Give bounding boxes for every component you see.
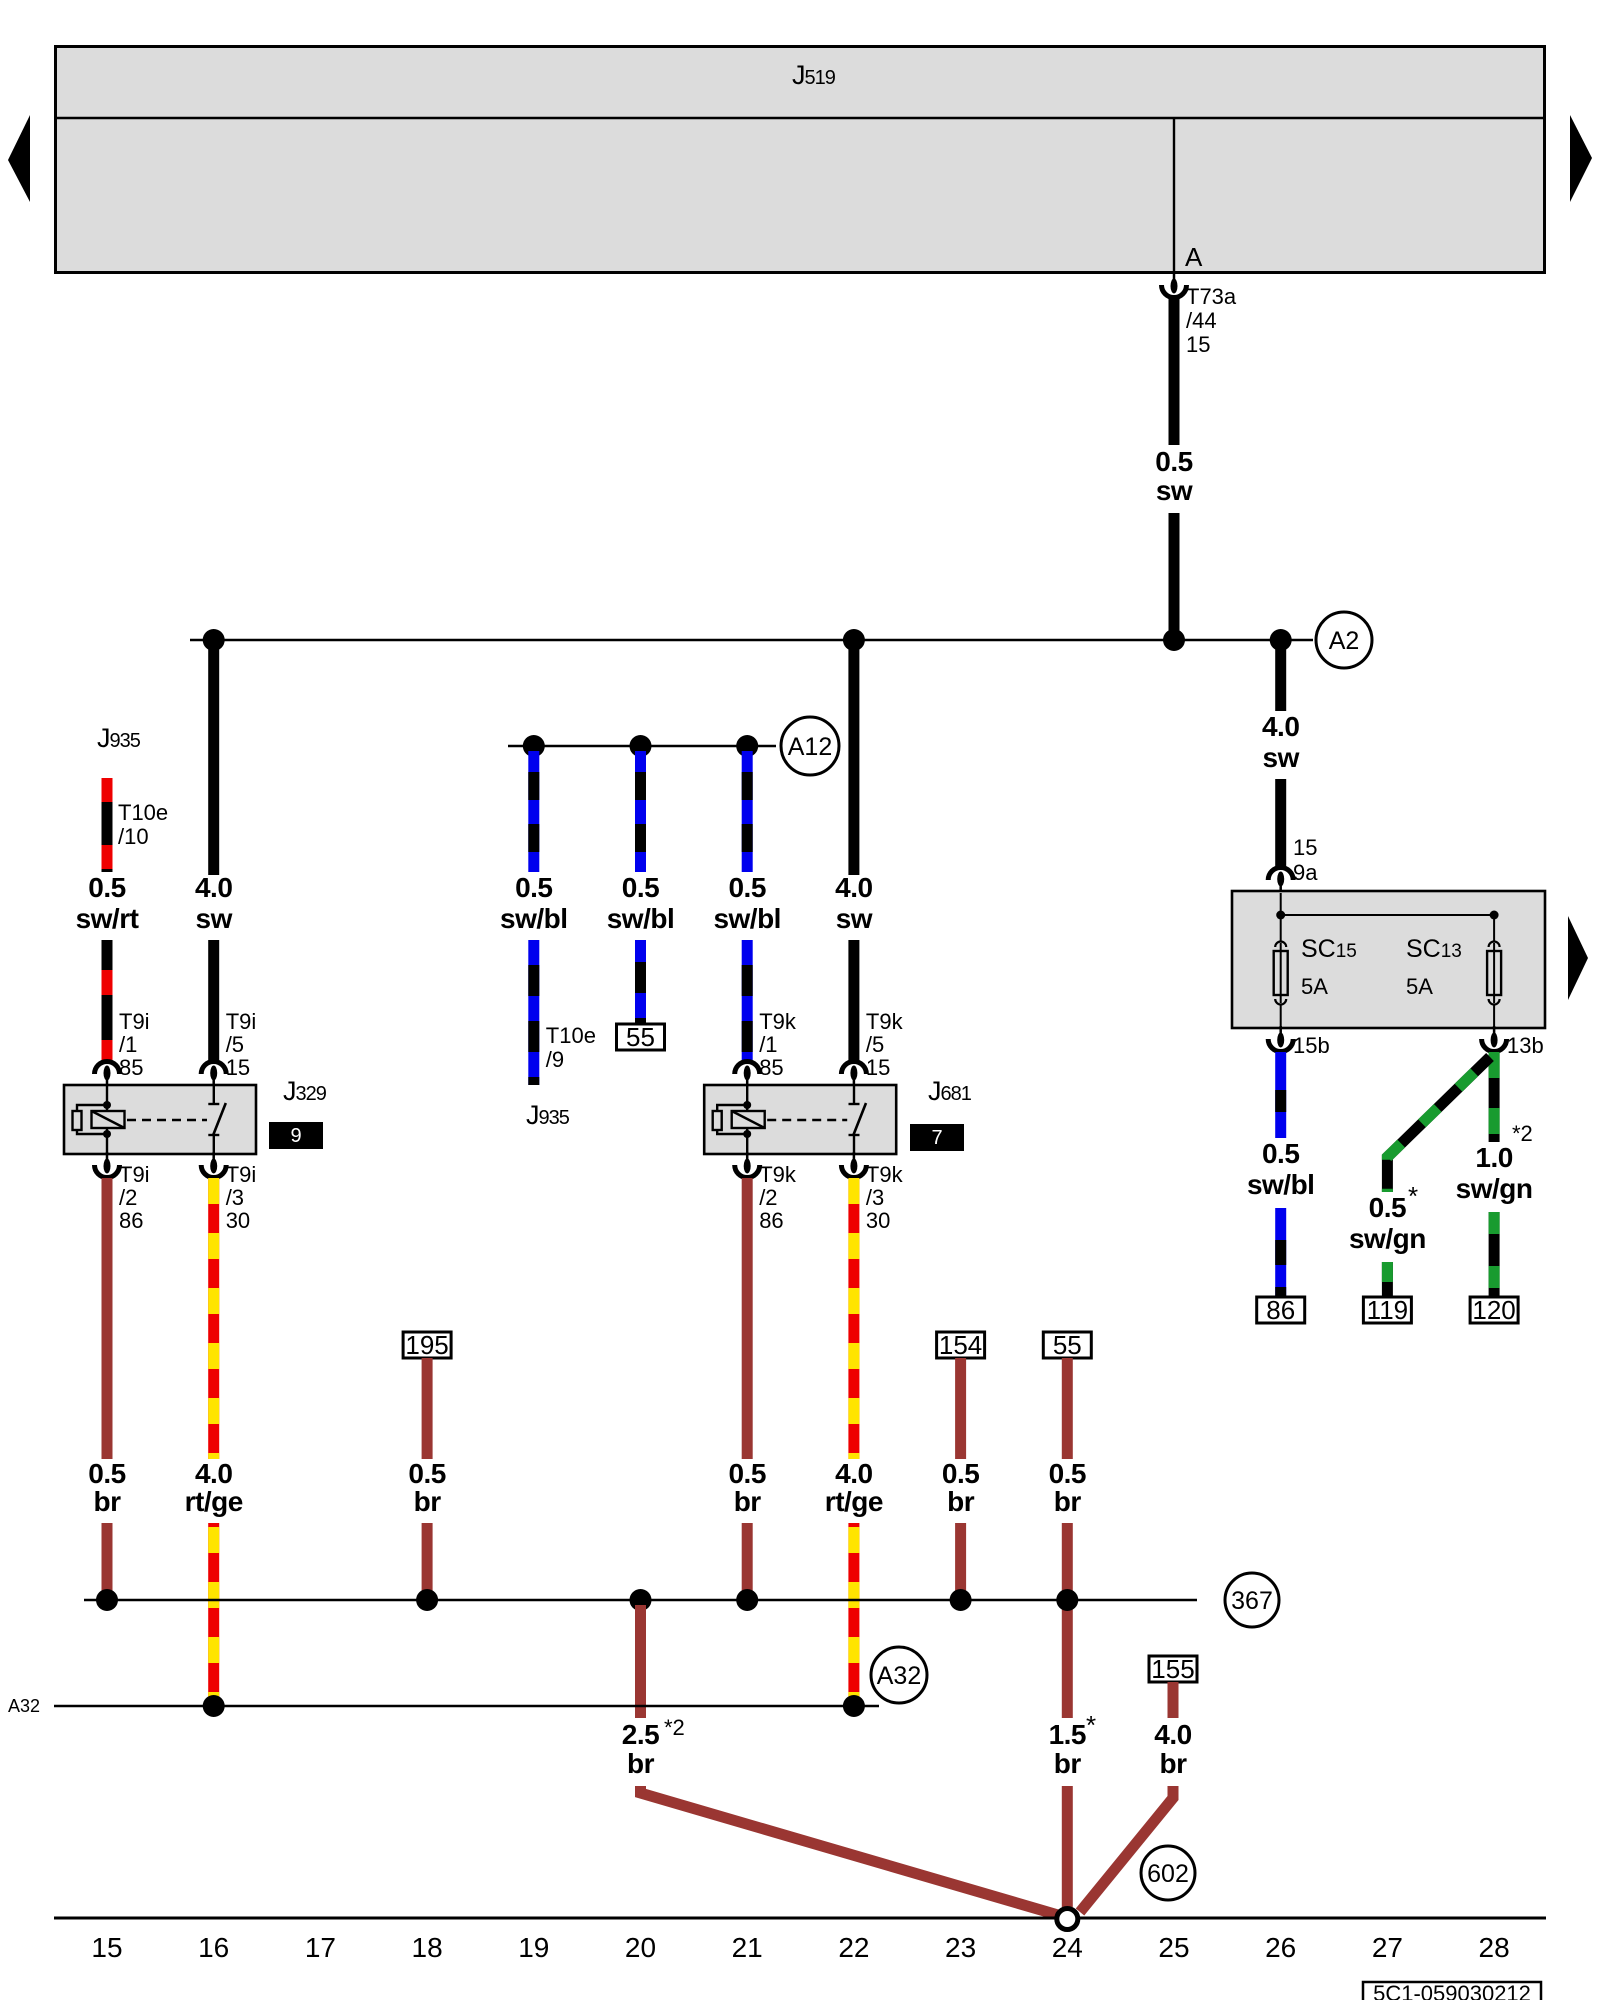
wire label 0.5 br col24: [1049, 1458, 1086, 1517]
terminal box 155: [1149, 1654, 1197, 1684]
wire label 4.0 br col25: [1154, 1719, 1191, 1779]
connector label T73a /44 15: [1186, 284, 1237, 357]
ground junction ring: [1057, 1909, 1078, 1930]
connector T9k/2 86: [735, 1152, 760, 1178]
connector T9i/3 30: [201, 1152, 226, 1178]
svg-text:0.5: 0.5: [1155, 446, 1192, 477]
svg-text:28: 28: [1479, 1932, 1510, 1963]
connector T9k/3 30: [841, 1152, 866, 1178]
wire label 0.5 sw/rt: [76, 872, 139, 934]
svg-text:br: br: [1054, 1748, 1082, 1779]
svg-text:/5: /5: [226, 1032, 244, 1057]
junction dot col21/367: [736, 1589, 758, 1611]
wire 0.5 br from T9i/2: [102, 1178, 113, 1600]
svg-text:0.5: 0.5: [515, 872, 552, 903]
svg-text:sw: sw: [1263, 742, 1300, 773]
svg-text:7: 7: [931, 1127, 942, 1149]
wire label 0.5 sw: [1155, 446, 1193, 506]
connector label T10e /10: [118, 800, 168, 849]
svg-text:*: *: [1086, 1710, 1096, 1740]
terminal box 195: [403, 1330, 451, 1360]
terminal box 120: [1470, 1295, 1518, 1325]
svg-text:/1: /1: [119, 1032, 137, 1057]
wire 0.5 br col18: [422, 1358, 433, 1600]
wire 4.0 rt/ge from T9i/3: [208, 1178, 219, 1701]
svg-text:sw/bl: sw/bl: [713, 903, 781, 934]
svg-text:20: 20: [625, 1932, 656, 1963]
wire label 0.5 br col23: [942, 1458, 979, 1517]
svg-text:21: 21: [732, 1932, 763, 1963]
svg-text:/44: /44: [1186, 308, 1217, 333]
svg-text:24: 24: [1052, 1932, 1083, 1963]
wire label 4.0 sw col22: [835, 872, 873, 934]
connector label 15 9a: [1293, 835, 1318, 885]
ground circle 367: [1225, 1573, 1279, 1627]
svg-text:0.5: 0.5: [942, 1458, 979, 1489]
connector label T9i /5 15: [226, 1009, 257, 1080]
svg-text:155: 155: [1151, 1654, 1194, 1684]
wire 2.5 br diagonal to ground point: [641, 1786, 1059, 1915]
connector 15/9a to fuse box: [1268, 868, 1293, 894]
svg-text:19: 19: [518, 1932, 549, 1963]
svg-text:27: 27: [1372, 1932, 1403, 1963]
svg-text:16: 16: [198, 1932, 229, 1963]
svg-text:4.0: 4.0: [1154, 1719, 1191, 1750]
right continuation arrow (top): [1570, 115, 1592, 202]
svg-text:0.5: 0.5: [622, 872, 659, 903]
svg-text:*: *: [1408, 1181, 1418, 1211]
ground node line 367: [84, 1599, 1197, 1602]
junction dot col20: [630, 735, 652, 757]
svg-text:A12: A12: [788, 733, 832, 761]
svg-text:15: 15: [1186, 332, 1210, 357]
svg-text:T9k: T9k: [759, 1009, 797, 1034]
junction dot col22: [843, 629, 865, 651]
svg-text:0.5: 0.5: [88, 872, 125, 903]
svg-text:9: 9: [290, 1125, 301, 1147]
svg-text:br: br: [94, 1486, 122, 1517]
wire label * 1.5 br col24: [1086, 1710, 1096, 1740]
junction dot col25: [1163, 629, 1185, 651]
wire 0.5 br from T9k/2: [742, 1178, 753, 1600]
svg-text:sw: sw: [1156, 475, 1193, 506]
connector label T9k /5 15: [866, 1009, 904, 1080]
relay J329: [64, 1085, 256, 1154]
relay position box 9: [269, 1122, 323, 1149]
svg-text:26: 26: [1265, 1932, 1296, 1963]
relay position box 7: [910, 1124, 964, 1151]
junction dot col19: [523, 735, 545, 757]
svg-text:/2: /2: [119, 1185, 137, 1210]
svg-text:85: 85: [759, 1055, 783, 1080]
svg-text:119: 119: [1367, 1295, 1408, 1325]
wire label *2 2.5 br: [664, 1715, 685, 1740]
node circle A2: [1316, 612, 1372, 668]
svg-text:0.5: 0.5: [1262, 1138, 1299, 1169]
svg-text:195: 195: [405, 1330, 448, 1360]
svg-text:15: 15: [1293, 835, 1317, 860]
wire label * 0.5 sw/gn: [1408, 1181, 1418, 1211]
track numbers 15-28: [91, 1932, 1509, 1963]
svg-text:602: 602: [1147, 1860, 1189, 1888]
connector label T9k /2 86: [759, 1162, 797, 1233]
wire 1.5 br to ground point: [1062, 1786, 1073, 1907]
control unit J519 box: [56, 47, 1545, 273]
wire label 4.0 rt/ge col16: [185, 1458, 243, 1517]
svg-text:A32: A32: [8, 1696, 40, 1716]
wire 4.0 rt/ge from T9k/3: [848, 1178, 859, 1701]
node circle A32: [871, 1647, 927, 1703]
wire 1.0 sw/gn from 13b (col28): [1489, 1052, 1500, 1298]
ground circle 602: [1141, 1846, 1195, 1900]
svg-text:13b: 13b: [1507, 1033, 1544, 1058]
connector label T9i /1 85: [119, 1009, 150, 1080]
svg-text:30: 30: [226, 1208, 250, 1233]
svg-text:T9k: T9k: [759, 1162, 797, 1187]
junction dot col22/A32: [843, 1695, 865, 1717]
junction dot col24/367: [1056, 1589, 1078, 1611]
svg-text:4.0: 4.0: [835, 1458, 872, 1489]
svg-text:0.5: 0.5: [728, 872, 765, 903]
svg-text:br: br: [414, 1486, 442, 1517]
wire 0.5 sw/bl from 15b: [1275, 1052, 1286, 1297]
junction dot col23/367: [950, 1589, 972, 1611]
terminal box 86: [1257, 1295, 1305, 1325]
wire label 4.0 sw col16: [195, 872, 233, 934]
node line to A2: [190, 639, 1313, 642]
svg-text:367: 367: [1231, 1587, 1273, 1615]
wire label 0.5 sw/bl 15b: [1247, 1138, 1315, 1200]
wire label *2 1.0 sw/gn: [1512, 1121, 1533, 1146]
wire label 0.5 sw/bl col19: [500, 872, 568, 934]
svg-text:18: 18: [412, 1932, 443, 1963]
junction dot col18/367: [416, 1589, 438, 1611]
svg-text:T9k: T9k: [866, 1162, 904, 1187]
wire 4.0 br from 155: [1168, 1682, 1179, 1718]
svg-text:4.0: 4.0: [195, 1458, 232, 1489]
left continuation arrow: [8, 115, 30, 202]
svg-text:0.5: 0.5: [728, 1458, 765, 1489]
wire label 4.0 sw col26: [1262, 711, 1300, 773]
junction dot col26: [1270, 629, 1292, 651]
svg-text:sw/bl: sw/bl: [500, 903, 568, 934]
svg-text:86: 86: [1266, 1295, 1295, 1325]
svg-text:T9k: T9k: [866, 1009, 904, 1034]
svg-text:A2: A2: [1329, 627, 1360, 655]
wire 0.5 sw/rt col15: [102, 778, 113, 1060]
connector T9i/5 15: [201, 1062, 226, 1088]
svg-text:T10e: T10e: [118, 800, 168, 825]
svg-text:/10: /10: [118, 824, 149, 849]
connector label T9k /3 30: [866, 1162, 904, 1233]
wire 0.5 sw/bl col21: [742, 751, 753, 1060]
wire label 4.0 rt/ge col22: [825, 1458, 883, 1517]
svg-text:/1: /1: [759, 1032, 777, 1057]
svg-text:sw/gn: sw/gn: [1456, 1173, 1533, 1204]
svg-text:sw/rt: sw/rt: [76, 903, 139, 934]
svg-text:/9: /9: [546, 1047, 564, 1072]
svg-text:86: 86: [759, 1208, 783, 1233]
svg-text:23: 23: [945, 1932, 976, 1963]
svg-text:T9i: T9i: [119, 1162, 150, 1187]
right continuation arrow (fuse box): [1568, 916, 1588, 1000]
svg-text:9a: 9a: [1293, 860, 1318, 885]
svg-text:5C1-059030212: 5C1-059030212: [1373, 1981, 1531, 2000]
terminal box 55 (col24): [1043, 1330, 1091, 1360]
svg-text:br: br: [1054, 1486, 1082, 1517]
svg-text:0.5: 0.5: [88, 1458, 125, 1489]
node line A12: [508, 745, 776, 748]
svg-text:5A: 5A: [1406, 974, 1433, 999]
junction dot col15/367: [96, 1589, 118, 1611]
svg-text:/5: /5: [866, 1032, 884, 1057]
connector T9k/5 15: [841, 1062, 866, 1088]
wire label 0.5 br col15: [88, 1458, 125, 1517]
wire label 0.5 sw/bl col20: [607, 872, 675, 934]
wire 4.0 sw col16 to relay J329: [208, 645, 219, 1060]
svg-text:/3: /3: [866, 1185, 884, 1210]
svg-text:sw/bl: sw/bl: [607, 903, 675, 934]
svg-text:17: 17: [305, 1932, 336, 1963]
wire label 0.5 br col18: [408, 1458, 445, 1517]
svg-text:120: 120: [1472, 1295, 1515, 1325]
wire 0.5 br col24: [1062, 1358, 1073, 1718]
connector T9k/1 85: [735, 1062, 760, 1088]
svg-text:sw/gn: sw/gn: [1349, 1223, 1426, 1254]
connector 15b: [1268, 1026, 1293, 1052]
drawing number box: [1363, 1981, 1541, 2000]
svg-text:1.0: 1.0: [1475, 1142, 1512, 1173]
connector label T9k /1 85: [759, 1009, 797, 1080]
internal wire of J519 to pin A: [1173, 118, 1175, 273]
junction dot col16: [203, 629, 225, 651]
terminal box 119: [1363, 1295, 1411, 1325]
connector label T10e /9: [546, 1023, 596, 1072]
svg-text:T9i: T9i: [226, 1009, 257, 1034]
svg-text:T73a: T73a: [1186, 284, 1237, 309]
fuse SC15 5A: [1274, 942, 1288, 1005]
svg-text:85: 85: [119, 1055, 143, 1080]
wire label 0.5 br col21: [728, 1458, 765, 1517]
svg-text:T9i: T9i: [119, 1009, 150, 1034]
svg-text:86: 86: [119, 1208, 143, 1233]
svg-text:25: 25: [1158, 1932, 1189, 1963]
fuse box SC15/SC13: [1232, 891, 1545, 1028]
wire 0.5 sw/bl col19: [528, 751, 539, 1085]
svg-text:2.5: 2.5: [622, 1719, 659, 1750]
bottom track line: [54, 1917, 1546, 1920]
wire 4.0 sw col26 to fuse box: [1275, 645, 1286, 866]
label SC13 5A: [1406, 935, 1462, 999]
svg-text:sw/bl: sw/bl: [1247, 1169, 1315, 1200]
svg-text:1.5: 1.5: [1049, 1719, 1086, 1750]
svg-text:/3: /3: [226, 1185, 244, 1210]
terminal box 154: [937, 1330, 985, 1360]
svg-text:15: 15: [866, 1055, 890, 1080]
svg-text:A32: A32: [877, 1662, 921, 1690]
svg-text:rt/ge: rt/ge: [825, 1486, 883, 1517]
svg-text:br: br: [734, 1486, 762, 1517]
svg-text:4.0: 4.0: [195, 872, 232, 903]
fuse SC13 5A: [1487, 942, 1501, 1005]
connection line A32: [54, 1705, 879, 1708]
wire 0.5 br col23: [955, 1358, 966, 1600]
svg-text:22: 22: [838, 1932, 869, 1963]
svg-text:0.5: 0.5: [1369, 1192, 1406, 1223]
svg-text:0.5: 0.5: [1049, 1458, 1086, 1489]
wire 0.5 sw from J519 pin A: [1169, 297, 1180, 640]
junction dot col21: [736, 735, 758, 757]
svg-text:T9i: T9i: [226, 1162, 257, 1187]
svg-text:sw: sw: [836, 903, 873, 934]
junction dot col20/367: [630, 1589, 652, 1611]
wire 4.0 sw col22 to relay J681: [848, 645, 859, 1060]
svg-text:*2: *2: [1512, 1121, 1533, 1146]
wire 0.5 sw/gn diagonal from 13b to 119: [1387, 1057, 1490, 1298]
svg-text:/2: /2: [759, 1185, 777, 1210]
connector T9i/1 85: [95, 1062, 120, 1088]
junction dot col16/A32: [203, 1695, 225, 1717]
connector T73a/44: [1162, 272, 1187, 298]
svg-text:55: 55: [626, 1022, 655, 1052]
node circle A12: [781, 717, 839, 775]
terminal box 55 (col20): [617, 1022, 665, 1052]
wire label 0.5 sw/bl col21: [713, 872, 781, 934]
svg-text:T10e: T10e: [546, 1023, 596, 1048]
connector T9i/2 86: [95, 1152, 120, 1178]
relay J681: [704, 1085, 896, 1154]
svg-text:15: 15: [226, 1055, 250, 1080]
svg-text:sw: sw: [196, 903, 233, 934]
svg-text:rt/ge: rt/ge: [185, 1486, 243, 1517]
svg-text:A: A: [1185, 242, 1203, 272]
wire 2.5 br branch from 367 line: [635, 1605, 646, 1718]
svg-text:4.0: 4.0: [835, 872, 872, 903]
connector label T9i /3 30: [226, 1162, 257, 1233]
connector 13b: [1482, 1026, 1507, 1052]
svg-text:br: br: [947, 1486, 975, 1517]
svg-text:15b: 15b: [1293, 1033, 1330, 1058]
wire 0.5 sw/bl col20: [635, 751, 646, 1024]
svg-text:br: br: [627, 1748, 655, 1779]
connector label T9i /2 86: [119, 1162, 150, 1233]
svg-text:br: br: [1160, 1748, 1188, 1779]
svg-text:15: 15: [91, 1932, 122, 1963]
wire 4.0 br diagonal to ground point: [1080, 1786, 1173, 1912]
label SC15 5A: [1301, 935, 1357, 999]
svg-text:*2: *2: [664, 1715, 685, 1740]
svg-text:154: 154: [939, 1330, 982, 1360]
svg-text:5A: 5A: [1301, 974, 1328, 999]
svg-text:55: 55: [1053, 1330, 1082, 1360]
svg-text:30: 30: [866, 1208, 890, 1233]
svg-text:4.0: 4.0: [1262, 711, 1299, 742]
svg-text:0.5: 0.5: [408, 1458, 445, 1489]
